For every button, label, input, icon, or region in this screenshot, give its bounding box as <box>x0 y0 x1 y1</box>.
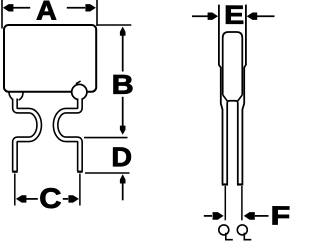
svg-text:D: D <box>111 142 132 172</box>
dimension C line left stem <box>26 198 38 200</box>
right lead centerline extension <box>79 174 81 206</box>
svg-text:C: C <box>39 183 61 214</box>
side view: outer coating right line <box>242 5 246 185</box>
mold notch tick above right boss <box>76 81 81 84</box>
left centerline symbol circle <box>219 225 229 235</box>
dimension C right arrowhead <box>68 195 79 202</box>
dimension A left extension line <box>1 0 3 29</box>
left lead centerline extension <box>14 174 16 206</box>
side view: outer coating left line <box>219 5 223 185</box>
left lead wire (front view, S-kink) <box>15 99 39 172</box>
svg-text:A: A <box>36 0 57 26</box>
side view: inner element capsule <box>223 32 243 95</box>
svg-text:B: B <box>112 70 134 100</box>
dimension B top extension line <box>97 24 131 26</box>
side view: right lead centerline <box>241 186 243 220</box>
right lead wire (front view, S-kink) <box>56 99 80 172</box>
left centerline symbol L <box>226 233 233 240</box>
dimension A right arrowhead <box>85 4 96 11</box>
extension line at lead end (D bottom) <box>85 172 130 174</box>
side view: capsule taper left <box>223 95 228 101</box>
right centerline symbol L <box>244 233 251 240</box>
dimension B down arrowhead <box>120 126 126 135</box>
dimension C left arrowhead <box>16 195 27 202</box>
dimension E left arrowhead <box>208 13 219 20</box>
dimension F right arrowhead <box>244 212 255 220</box>
dimension C line right stem <box>63 198 68 200</box>
dimension A right extension line <box>96 0 98 26</box>
dimension B up arrowhead <box>120 27 126 36</box>
dimension E line left stem <box>192 15 209 17</box>
right lead cut end bar <box>77 171 83 173</box>
side view: capsule taper right <box>238 95 243 101</box>
extension line at lead kink bottom (D top) <box>84 137 128 139</box>
dimension D up arrowhead (below line) <box>120 174 126 183</box>
dimension F left arrowhead <box>213 212 224 220</box>
dimension E right arrowhead <box>247 13 258 20</box>
left lead boss (dome under body) <box>9 92 23 101</box>
dimension E line right stem <box>257 15 275 17</box>
dimension F line right stem <box>255 215 269 217</box>
side view: right lead end bar <box>237 183 243 185</box>
dimension D arrow stem <box>122 182 124 200</box>
right centerline symbol circle <box>237 225 247 235</box>
dimension F line left stem <box>204 215 212 217</box>
dimension A line left segment <box>9 7 31 9</box>
side view: lead inner lines and crotch <box>227 101 238 185</box>
side view: left lead end bar <box>222 183 228 185</box>
left lead cut end bar <box>12 171 18 173</box>
right lead boss (circle on body bottom edge) <box>72 84 87 99</box>
svg-text:E: E <box>224 0 244 30</box>
dimension B line lower stem <box>122 97 124 130</box>
svg-text:F: F <box>271 200 291 230</box>
side view: left lead centerline <box>224 186 226 220</box>
dimension A line right segment <box>67 7 85 9</box>
dimension B line upper stem <box>122 35 124 72</box>
dimension A left arrowhead <box>3 4 14 11</box>
body outline (front view) <box>4 25 96 92</box>
